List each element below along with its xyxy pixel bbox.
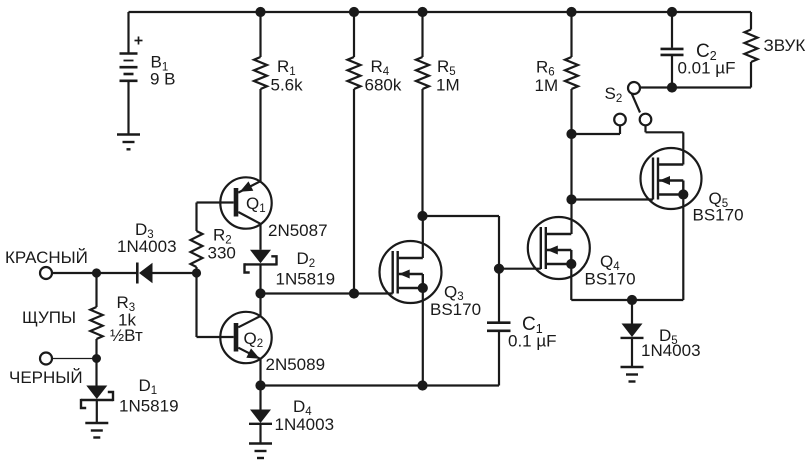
resistor R3 — [90, 273, 102, 359]
node D2 bottom junction — [256, 289, 265, 298]
node Q5 gate junction — [567, 195, 576, 204]
label R3 1k halfW — [110, 293, 143, 345]
resistor R2 — [191, 203, 203, 274]
svg-text:1N4003: 1N4003 — [641, 341, 701, 360]
label D2 1N5819 — [276, 249, 336, 289]
svg-text:1N4003: 1N4003 — [117, 237, 177, 256]
resistor R6 — [565, 12, 578, 134]
wire R5 to Q4-gate column — [418, 211, 499, 268]
transistor Q4 (BS170 MOSFET) — [528, 217, 590, 300]
wire C1 top lead — [498, 269, 500, 323]
diode D5 (1N4003) — [621, 300, 644, 367]
transistor Q5 (BS170 MOSFET) — [641, 132, 702, 300]
wire red probe — [52, 272, 97, 274]
label B1 9V — [150, 53, 176, 89]
label R6 1M — [535, 58, 559, 96]
node R4 gate junction — [349, 289, 358, 298]
svg-text:Q2: Q2 — [244, 329, 264, 350]
resistor R1 — [254, 12, 267, 182]
svg-text:BS170: BS170 — [585, 270, 636, 289]
node Q3 source junction — [418, 381, 427, 390]
diode D3 (1N4003) — [137, 263, 196, 284]
battery B1 — [120, 37, 143, 135]
svg-text:BS170: BS170 — [430, 300, 481, 319]
label D5 1N4003 — [641, 326, 701, 360]
wire bottom rail to C1 — [261, 384, 500, 386]
svg-text:BS170: BS170 — [693, 206, 744, 225]
node C2 bottom junction — [667, 83, 676, 92]
svg-text:5.6k: 5.6k — [271, 76, 304, 95]
wire to D3 — [97, 272, 137, 274]
label C1 0.1uF — [508, 314, 557, 351]
node D5 junction — [627, 295, 636, 304]
label D1 1N5819 — [119, 376, 179, 416]
wire Q4 source to Q5 source — [571, 299, 683, 301]
node R6/S2 junction — [567, 129, 576, 138]
svg-text:КРАСНЫЙ: КРАСНЫЙ — [5, 248, 88, 267]
svg-text:1N4003: 1N4003 — [275, 415, 335, 434]
diode D4 (1N4003) — [249, 386, 272, 444]
svg-text:1M: 1M — [436, 76, 460, 95]
capacitor C2 — [661, 12, 684, 88]
label R1 5.6k — [271, 57, 304, 95]
svg-text:0.1 µF: 0.1 µF — [508, 332, 557, 351]
terminal black probe — [40, 353, 52, 365]
svg-text:ЧЕРНЫЙ: ЧЕРНЫЙ — [9, 368, 83, 387]
wire R6 junction to Q5 gate junction — [570, 134, 572, 200]
wire top supply rail — [129, 11, 752, 13]
resistor R4 — [348, 12, 361, 294]
label Q4 BS170 — [585, 252, 636, 289]
node top rail junction dots — [256, 7, 677, 16]
wire Q5 gate — [572, 198, 654, 200]
label C2 0.01uF — [678, 41, 736, 78]
svg-text:2N5087: 2N5087 — [268, 221, 328, 240]
transistor Q1 (2N5087 PNP) — [197, 177, 272, 250]
node Q2 emitter junction — [256, 381, 265, 390]
svg-text:1N5819: 1N5819 — [276, 270, 336, 289]
capacitor C1 — [487, 323, 511, 386]
resistor R5 — [416, 12, 429, 216]
diode D2 (1N5819 Schottky) — [245, 250, 277, 294]
svg-text:D1: D1 — [139, 376, 158, 397]
svg-text:9 В: 9 В — [150, 70, 176, 89]
svg-text:½Вт: ½Вт — [110, 326, 143, 345]
ground (D5) — [621, 367, 644, 382]
svg-text:330: 330 — [208, 244, 236, 263]
ground (D4) — [249, 444, 272, 459]
node R2/D3/base junction — [192, 269, 200, 277]
svg-text:0.01 µF: 0.01 µF — [678, 59, 736, 78]
ground (battery) — [117, 135, 140, 150]
wire Q4 gate — [499, 268, 541, 270]
wire black probe — [52, 358, 97, 360]
wire junction to Q2 base — [197, 273, 234, 337]
label Q5 BS170 — [693, 189, 744, 225]
switch S2 — [572, 82, 684, 134]
svg-text:S2: S2 — [605, 84, 623, 105]
label R2 330 — [208, 226, 236, 263]
wire battery drop — [127, 12, 129, 54]
resistor ZVUK (sound output) — [672, 12, 758, 88]
label R5 1M — [436, 57, 460, 95]
svg-text:D2: D2 — [297, 249, 316, 270]
svg-text:2N5089: 2N5089 — [266, 355, 326, 374]
svg-text:1M: 1M — [535, 76, 559, 95]
ground (D1) — [85, 423, 108, 438]
transistor Q3 (BS170 MOSFET) — [380, 216, 442, 386]
svg-text:ЩУПЫ: ЩУПЫ — [22, 308, 76, 327]
wire Q3 gate rail — [261, 292, 393, 294]
svg-text:680k: 680k — [365, 76, 402, 95]
node black probe junction — [93, 355, 101, 363]
svg-text:ЗВУК: ЗВУК — [764, 36, 806, 55]
label D3 1N4003 — [117, 220, 177, 256]
wire Q4 drain drop — [570, 200, 572, 235]
node red probe junction — [92, 269, 100, 277]
svg-text:1N5819: 1N5819 — [119, 397, 179, 416]
label R4 680k — [365, 57, 402, 95]
transistor Q2 (2N5089 NPN) — [220, 294, 271, 386]
terminal red probe — [40, 267, 52, 279]
node Q4 gate / C1 junction — [494, 264, 503, 273]
label D4 1N4003 — [275, 397, 335, 434]
svg-text:Q1: Q1 — [246, 194, 266, 215]
diode D1 (1N5819 Schottky) — [81, 359, 113, 424]
label Q3 BS170 — [430, 282, 481, 319]
